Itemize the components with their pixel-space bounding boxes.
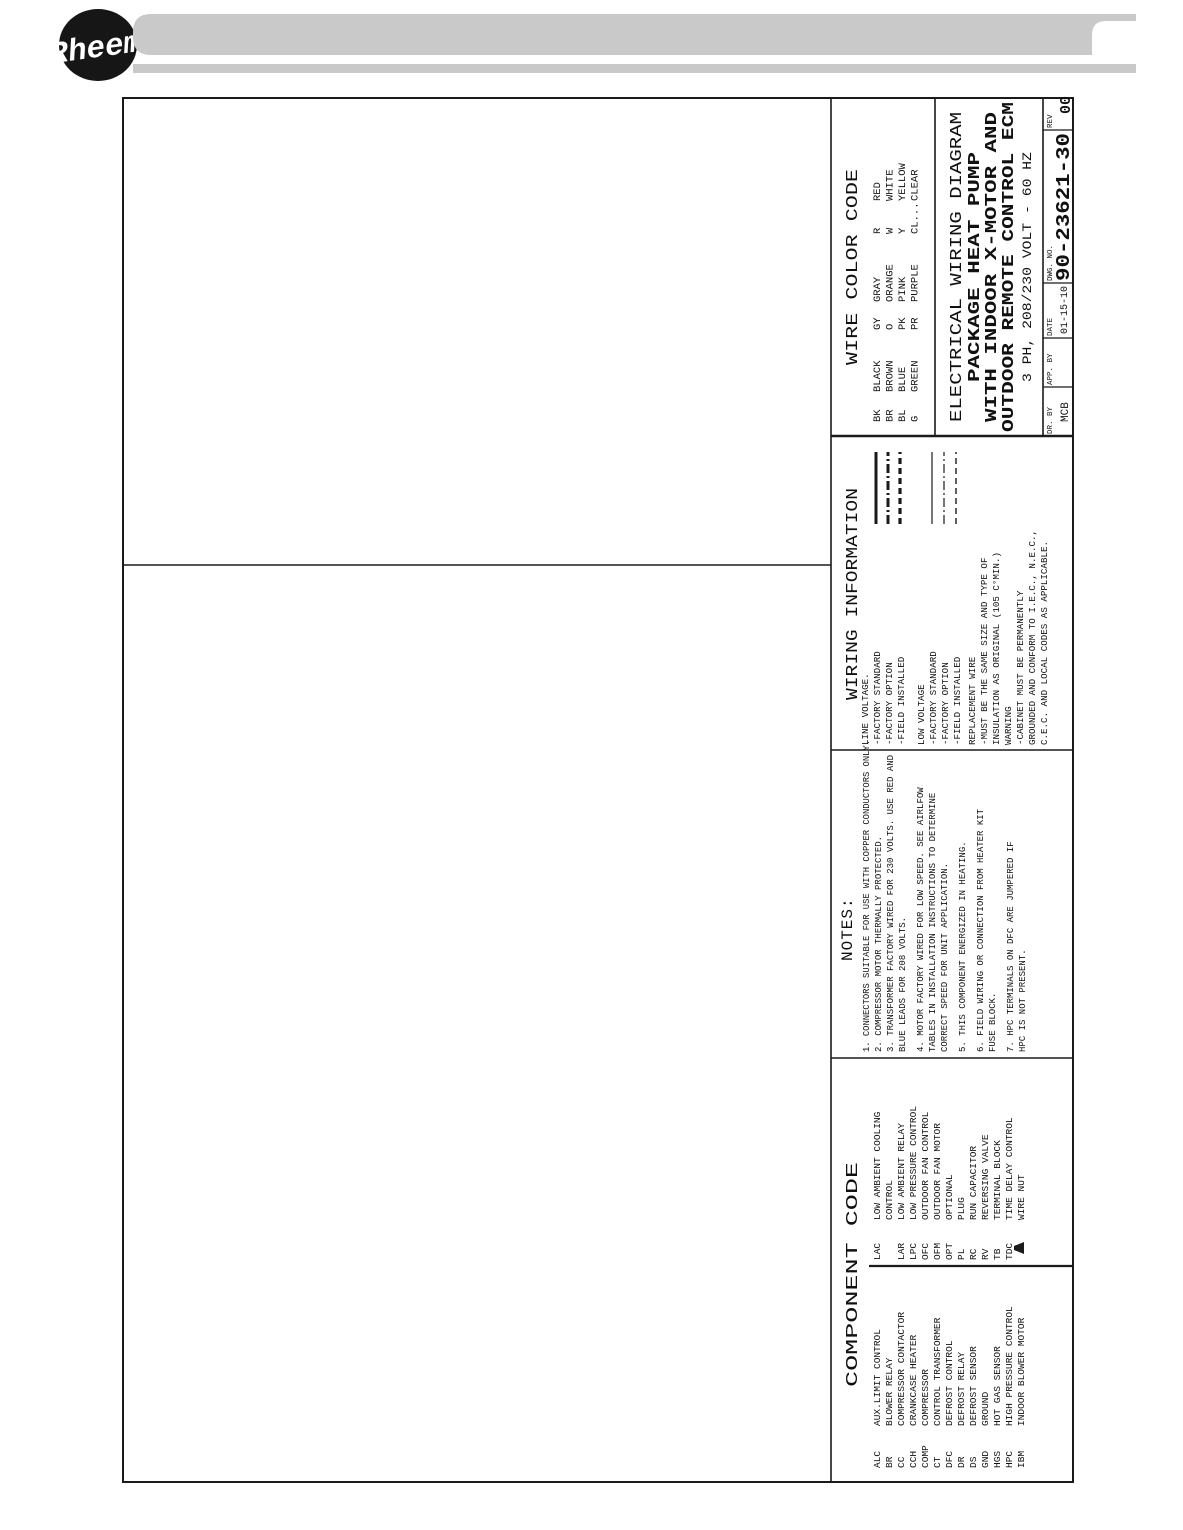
svg-text:ELECTRICAL WIRING DIAGRAM: ELECTRICAL WIRING DIAGRAM — [948, 112, 967, 422]
svg-text:BR: BR — [885, 409, 897, 422]
svg-text:BLACK: BLACK — [872, 360, 884, 392]
svg-text:00: 00 — [1058, 96, 1075, 114]
svg-text:AUX.LIMIT CONTROL: AUX.LIMIT CONTROL — [872, 1329, 883, 1426]
svg-text:CL...: CL... — [910, 202, 922, 234]
svg-text:WIRE NUT: WIRE NUT — [1016, 1174, 1027, 1220]
svg-text:01-15-10: 01-15-10 — [1060, 286, 1071, 334]
svg-text:-FACTORY STANDARD: -FACTORY STANDARD — [928, 651, 939, 745]
svg-text:HPC: HPC — [1004, 1451, 1015, 1468]
svg-text:LAR: LAR — [896, 1243, 907, 1260]
svg-text:-MUST BE THE SAME SIZE AND TYP: -MUST BE THE SAME SIZE AND TYPE OF — [979, 558, 990, 745]
svg-text:TDC: TDC — [1004, 1243, 1015, 1260]
svg-text:RV: RV — [980, 1248, 991, 1260]
low voltage legend samples — [931, 452, 933, 524]
svg-text:LOW AMBIENT COOLING: LOW AMBIENT COOLING — [872, 1111, 883, 1220]
svg-text:CRANKCASE HEATER: CRANKCASE HEATER — [908, 1334, 919, 1426]
svg-text:PURPLE: PURPLE — [910, 264, 922, 302]
svg-text:7. HPC TERMINALS ON DFC ARE JU: 7. HPC TERMINALS ON DFC ARE JUMPERED IF — [1006, 841, 1016, 1052]
panel divider schematic/connection — [124, 564, 831, 566]
svg-text:DFC: DFC — [944, 1451, 955, 1468]
svg-text:COMPRESSOR: COMPRESSOR — [920, 1369, 931, 1426]
svg-text:OPTIONAL: OPTIONAL — [944, 1174, 955, 1220]
svg-text:BR: BR — [884, 1456, 895, 1468]
svg-text:HIGH PRESSURE CONTROL: HIGH PRESSURE CONTROL — [1004, 1306, 1015, 1426]
svg-text:COMPRESSOR CONTACTOR: COMPRESSOR CONTACTOR — [896, 1312, 907, 1426]
svg-text:RC: RC — [968, 1248, 979, 1260]
svg-text:-FIELD INSTALLED: -FIELD INSTALLED — [896, 656, 907, 745]
svg-text:CONTROL: CONTROL — [884, 1180, 895, 1220]
title / subtitle divider — [1042, 98, 1044, 436]
svg-text:CONTROL TRANSFORMER: CONTROL TRANSFORMER — [932, 1317, 943, 1426]
header bar thin — [133, 64, 1136, 73]
svg-text:FUSE BLOCK.: FUSE BLOCK. — [988, 993, 998, 1052]
svg-text:MCB: MCB — [1060, 402, 1072, 422]
svg-text:REV: REV — [1047, 114, 1055, 128]
svg-text:GY: GY — [872, 317, 884, 330]
svg-text:C.E.C. AND LOCAL CODES AS APPL: C.E.C. AND LOCAL CODES AS APPLICABLE. — [1039, 541, 1050, 745]
svg-text:REVERSING VALVE: REVERSING VALVE — [980, 1134, 991, 1220]
svg-text:WIRE COLOR CODE: WIRE COLOR CODE — [844, 169, 863, 365]
svg-text:DS: DS — [968, 1456, 979, 1468]
svg-text:CORRECT SPEED FOR UNIT APPLICA: CORRECT SPEED FOR UNIT APPLICATION. — [940, 863, 950, 1052]
svg-text:5. THIS COMPONENT ENERGIZED IN: 5. THIS COMPONENT ENERGIZED IN HEATING. — [958, 841, 968, 1052]
svg-text:BLUE LEADS FOR 208 VOLTS.: BLUE LEADS FOR 208 VOLTS. — [898, 917, 908, 1052]
svg-text:LOW PRESSURE CONTROL: LOW PRESSURE CONTROL — [908, 1106, 919, 1220]
svg-text:TERMINAL BLOCK: TERMINAL BLOCK — [992, 1140, 1003, 1220]
svg-text:OPT: OPT — [944, 1243, 955, 1260]
title area bottom line — [831, 435, 1073, 438]
svg-text:3 PH, 208/230 VOLT - 60 HZ: 3 PH, 208/230 VOLT - 60 HZ — [1021, 151, 1035, 382]
svg-text:DEFROST SENSOR: DEFROST SENSOR — [968, 1346, 979, 1426]
svg-text:TIME DELAY CONTROL: TIME DELAY CONTROL — [1004, 1117, 1015, 1220]
svg-text:HGS: HGS — [992, 1451, 1003, 1468]
svg-text:-FACTORY OPTION: -FACTORY OPTION — [940, 662, 951, 745]
svg-text:COMPONENT CODE: COMPONENT CODE — [844, 1162, 863, 1387]
notes / component code divider — [831, 1057, 1073, 1059]
svg-text:LPC: LPC — [908, 1243, 919, 1260]
svg-text:PR: PR — [910, 317, 922, 330]
svg-text:O: O — [885, 324, 897, 330]
title block cell lines — [1043, 386, 1073, 388]
svg-text:BL: BL — [897, 409, 909, 422]
svg-text:-FIELD INSTALLED: -FIELD INSTALLED — [952, 656, 963, 745]
component code column divider — [869, 1265, 1073, 1267]
svg-text:PL: PL — [956, 1248, 967, 1260]
svg-text:BLUE: BLUE — [897, 367, 909, 392]
svg-text:WARNING: WARNING — [1003, 706, 1014, 745]
svg-text:REPLACEMENT WIRE: REPLACEMENT WIRE — [967, 656, 978, 745]
svg-text:DEFROST RELAY: DEFROST RELAY — [956, 1352, 967, 1426]
svg-text:GROUND: GROUND — [980, 1391, 991, 1426]
svg-text:NOTES:: NOTES: — [839, 897, 857, 961]
svg-text:Y: Y — [897, 227, 909, 234]
svg-text:OUTDOOR FAN CONTROL: OUTDOOR FAN CONTROL — [920, 1111, 931, 1220]
svg-text:R: R — [872, 227, 884, 234]
svg-text:6. FIELD WIRING OR CONNECTION: 6. FIELD WIRING OR CONNECTION FROM HEATE… — [976, 808, 986, 1052]
svg-text:CLEAR: CLEAR — [910, 169, 922, 201]
svg-text:OUTDOOR FAN MOTOR: OUTDOOR FAN MOTOR — [932, 1123, 943, 1220]
svg-text:DEFROST CONTROL: DEFROST CONTROL — [944, 1340, 955, 1426]
wire color code / title divider — [934, 98, 936, 436]
svg-text:ALC: ALC — [872, 1451, 883, 1468]
header bar top — [133, 14, 1136, 55]
svg-text:-FACTORY OPTION: -FACTORY OPTION — [884, 662, 895, 745]
svg-text:3. TRANSFORMER FACTORY WIRED F: 3. TRANSFORMER FACTORY WIRED FOR 230 VOL… — [886, 755, 896, 1052]
svg-text:WHITE: WHITE — [885, 169, 897, 201]
svg-text:YELLOW: YELLOW — [897, 162, 909, 201]
panel divider diagram/notes strip — [830, 99, 832, 1481]
svg-text:HPC IS NOT PRESENT.: HPC IS NOT PRESENT. — [1018, 949, 1028, 1052]
svg-text:IBM: IBM — [1016, 1451, 1027, 1468]
svg-text:ORANGE: ORANGE — [885, 264, 897, 302]
svg-text:GREEN: GREEN — [910, 360, 922, 392]
svg-text:TB: TB — [992, 1248, 1003, 1260]
svg-text:BK: BK — [872, 409, 884, 422]
svg-text:CT: CT — [932, 1456, 943, 1468]
svg-text:INSULATION AS ORIGINAL (105 C°: INSULATION AS ORIGINAL (105 C°MIN.) — [991, 552, 1002, 745]
svg-text:G: G — [910, 416, 922, 422]
svg-text:DR: DR — [956, 1456, 967, 1468]
svg-text:-FACTORY STANDARD: -FACTORY STANDARD — [872, 651, 883, 745]
svg-text:GND: GND — [980, 1451, 991, 1468]
svg-text:COMP: COMP — [920, 1445, 931, 1468]
svg-text:OUTDOOR REMOTE CONTROL ECM: OUTDOOR REMOTE CONTROL ECM — [1000, 102, 1019, 432]
svg-text:DR. BY: DR. BY — [1047, 406, 1055, 434]
svg-text:2. COMPRESSOR MOTOR THERMALLY: 2. COMPRESSOR MOTOR THERMALLY PROTECTED. — [874, 836, 884, 1052]
svg-text:PINK: PINK — [897, 276, 909, 302]
svg-text:RUN CAPACITOR: RUN CAPACITOR — [968, 1146, 979, 1220]
svg-text:90-23621-30: 90-23621-30 — [1053, 133, 1075, 281]
svg-text:PLUG: PLUG — [956, 1197, 967, 1220]
svg-text:LOW AMBIENT RELAY: LOW AMBIENT RELAY — [896, 1123, 907, 1220]
svg-text:APP. BY: APP. BY — [1047, 353, 1055, 385]
svg-text:DATE: DATE — [1047, 317, 1055, 336]
svg-text:PK: PK — [897, 317, 909, 330]
svg-text:W: W — [885, 227, 897, 234]
svg-text:GROUNDED AND CONFORM TO I.E.C.: GROUNDED AND CONFORM TO I.E.C., N.E.C., — [1027, 530, 1038, 745]
Rheem logo — [59, 9, 137, 81]
svg-text:4. MOTOR FACTORY WIRED FOR LOW: 4. MOTOR FACTORY WIRED FOR LOW SPEED. SE… — [916, 787, 926, 1052]
drawing frame — [123, 98, 1073, 1482]
svg-text:BLOWER RELAY: BLOWER RELAY — [884, 1357, 895, 1426]
svg-text:INDOOR BLOWER MOTOR: INDOOR BLOWER MOTOR — [1016, 1317, 1027, 1426]
svg-text:OFM: OFM — [932, 1243, 943, 1260]
svg-text:RED: RED — [872, 182, 884, 201]
svg-text:BROWN: BROWN — [885, 360, 897, 392]
wiring info / notes divider — [831, 749, 1073, 751]
svg-text:LOW VOLTAGE: LOW VOLTAGE — [916, 684, 927, 745]
svg-text:-CABINET MUST BE PERMANENTLY: -CABINET MUST BE PERMANENTLY — [1015, 590, 1026, 745]
svg-text:CCH: CCH — [908, 1451, 919, 1468]
svg-text:OFC: OFC — [920, 1243, 931, 1260]
svg-text:WIRING INFORMATION: WIRING INFORMATION — [844, 488, 863, 700]
svg-text:LINE VOLTAGE.: LINE VOLTAGE. — [860, 673, 871, 745]
svg-text:TABLES IN INSTALLATION INSTRUC: TABLES IN INSTALLATION INSTRUCTIONS TO D… — [928, 793, 938, 1052]
svg-text:LAC: LAC — [872, 1243, 883, 1260]
svg-text:CC: CC — [896, 1456, 907, 1468]
svg-text:1. CONNECTORS SUITABLE FOR USE: 1. CONNECTORS SUITABLE FOR USE WITH COPP… — [862, 740, 872, 1052]
svg-text:GRAY: GRAY — [872, 276, 884, 302]
line voltage legend samples — [875, 452, 878, 524]
svg-text:HOT GAS SENSOR: HOT GAS SENSOR — [992, 1346, 1003, 1426]
